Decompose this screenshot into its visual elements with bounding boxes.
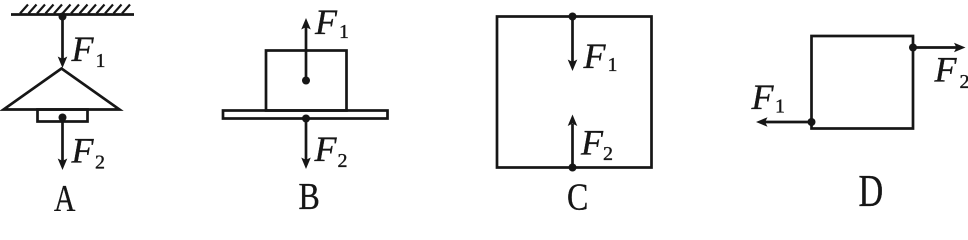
svg-text:1: 1 [339, 21, 349, 43]
svg-text:2: 2 [338, 150, 348, 172]
suspension point dot [59, 13, 67, 21]
svg-text:F: F [583, 36, 607, 76]
svg-text:F: F [751, 77, 775, 117]
svg-text:B: B [299, 175, 320, 211]
svg-text:F: F [580, 123, 604, 163]
ceiling [11, 13, 134, 16]
ceiling hatching [20, 5, 130, 14]
svg-text:1: 1 [608, 54, 618, 76]
box [497, 17, 652, 168]
block center dot [302, 77, 310, 85]
svg-text:D: D [859, 165, 884, 211]
svg-text:F: F [314, 2, 338, 42]
svg-text:1: 1 [96, 50, 106, 72]
right edge dot [909, 44, 917, 52]
svg-text:F: F [71, 29, 95, 69]
svg-text:A: A [54, 179, 76, 211]
left edge dot [808, 118, 816, 126]
svg-text:F: F [314, 129, 338, 169]
force arrow F1 (down) [571, 17, 574, 63]
force arrow F1 (down) [61, 15, 64, 59]
lampshade cone [4, 69, 120, 110]
force arrow F1 (up) [305, 27, 308, 81]
bottom dot [569, 164, 577, 172]
block [266, 51, 347, 111]
hanging block [38, 110, 88, 122]
box [812, 36, 914, 129]
force arrow F1 (left) [765, 121, 812, 124]
svg-text:F: F [934, 50, 958, 90]
svg-text:2: 2 [95, 152, 105, 174]
contact point dot [302, 115, 310, 123]
svg-text:F: F [71, 131, 95, 171]
svg-text:2: 2 [960, 71, 968, 93]
board [223, 111, 388, 119]
force arrow F2 (up) [571, 124, 574, 168]
force arrow F2 (right) [913, 46, 957, 49]
attachment dot [59, 114, 67, 122]
svg-text:2: 2 [603, 143, 613, 165]
svg-text:C: C [567, 176, 588, 211]
svg-text:1: 1 [775, 96, 785, 118]
force arrow F2 (down) [61, 119, 64, 161]
top dot [569, 13, 577, 21]
force arrow F2 (down) [305, 119, 308, 161]
